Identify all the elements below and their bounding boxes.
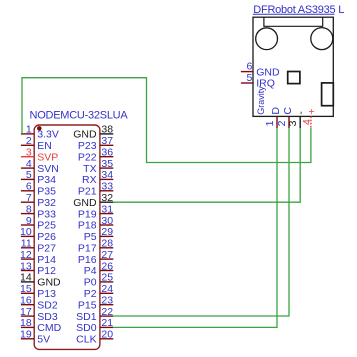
svg-text:16: 16 [20, 295, 32, 307]
U1 pin 8 (P33) left [21, 203, 56, 220]
svg-text:36: 36 [101, 147, 113, 159]
U1 pin 33 (P21) right [78, 181, 113, 198]
svg-text:15: 15 [20, 283, 32, 295]
U1 pin 12 (P14) left [20, 249, 56, 266]
svg-text:2: 2 [26, 135, 32, 147]
U1 pin 4 (SVN) left [21, 158, 59, 175]
svg-text:14: 14 [20, 272, 32, 284]
svg-text:SD0: SD0 [76, 322, 97, 334]
svg-text:IRQ: IRQ [256, 78, 275, 90]
U1 pin 5 (P34) left [21, 169, 56, 186]
U1 pin 6 (P35) left [21, 181, 56, 198]
svg-text:2: 2 [276, 120, 288, 126]
svg-text:3: 3 [26, 147, 32, 159]
U1 pin 31 (P19) right [78, 203, 113, 220]
svg-text:28: 28 [101, 238, 113, 250]
svg-text:P22: P22 [78, 151, 97, 163]
U2 left mounting hole [256, 28, 278, 50]
U2 pin 6 (GND) [241, 60, 280, 78]
svg-text:SVN: SVN [37, 163, 59, 175]
svg-text:P13: P13 [37, 288, 56, 300]
U1 pin 26 (P4) right [84, 260, 114, 277]
U1 pin 34 (RX) right [82, 169, 113, 186]
svg-text:1: 1 [264, 120, 276, 126]
U1 pin 15 (P13) left [20, 283, 56, 300]
svg-text:P33: P33 [37, 208, 56, 220]
svg-text:18: 18 [20, 317, 32, 329]
svg-text:12: 12 [20, 249, 32, 261]
svg-text:P34: P34 [37, 174, 56, 186]
U1 reference label NODEMCU-32SLUA [30, 109, 129, 121]
U1 pin 32 (GND) right [73, 192, 113, 209]
svg-text:P18: P18 [78, 220, 97, 232]
svg-text:22: 22 [101, 306, 113, 318]
svg-text:P32: P32 [37, 197, 56, 209]
U1 pin 13 (P12) left [20, 260, 56, 277]
svg-text:6: 6 [26, 181, 32, 193]
svg-text:20: 20 [101, 329, 113, 341]
U1 pin 24 (P2) right [84, 283, 114, 300]
svg-text:D: D [270, 107, 282, 115]
svg-text:P27: P27 [37, 242, 56, 254]
svg-text:P0: P0 [84, 277, 97, 289]
svg-text:P2: P2 [84, 288, 97, 300]
svg-text:29: 29 [101, 226, 113, 238]
svg-text:SD2: SD2 [37, 299, 58, 311]
U2 Gravity label (vertical) [256, 86, 266, 115]
svg-text:35: 35 [101, 158, 113, 170]
U1 pin 10 (P26) left [20, 226, 56, 243]
svg-text:P17: P17 [78, 242, 97, 254]
U1 pin 19 (5V) left [20, 329, 50, 346]
svg-text:27: 27 [101, 249, 113, 261]
svg-text:NODEMCU-32SLUA: NODEMCU-32SLUA [30, 109, 129, 121]
svg-text:P16: P16 [78, 254, 97, 266]
module U2 DFRobot AS3935 body [253, 17, 333, 116]
svg-text:11: 11 [21, 238, 32, 250]
svg-text:21: 21 [101, 317, 113, 329]
U1 pin 23 (P15) right [78, 295, 113, 312]
U1 pin 11 (P27) left [21, 238, 56, 255]
svg-text:Gravity: Gravity [256, 86, 266, 115]
U1 pin 9 (P25) left [21, 215, 56, 232]
svg-text:GND: GND [73, 197, 97, 209]
svg-text:3: 3 [287, 120, 299, 126]
svg-text:5V: 5V [37, 334, 50, 346]
svg-text:32: 32 [101, 192, 113, 204]
svg-text:RX: RX [82, 174, 97, 186]
svg-text:CMD: CMD [37, 322, 61, 334]
svg-text:25: 25 [101, 272, 113, 284]
U2 pin 3 (-) bottom [287, 111, 307, 128]
U1 pin 21 (SD0) right [76, 317, 113, 334]
svg-text:13: 13 [20, 260, 32, 272]
svg-text:P23: P23 [78, 140, 97, 152]
svg-text:P14: P14 [37, 254, 56, 266]
wire net GND: U2 pin3 (-) to U1 pin32 (GND) [113, 128, 300, 202]
U1 pin 14 (GND) left [20, 272, 61, 289]
U2 pin 2 (C) bottom [276, 107, 294, 128]
wire net SCL: U2 pin2 (C) to U1 pin22 (SD1) [113, 128, 289, 316]
U1 pin 35 (TX) right [83, 158, 113, 175]
U1 pin 25 (P0) right [84, 272, 114, 289]
svg-text:19: 19 [20, 329, 32, 341]
svg-text:6: 6 [246, 60, 252, 72]
svg-text:P21: P21 [78, 186, 97, 198]
svg-text:5: 5 [246, 72, 252, 84]
svg-text:10: 10 [20, 226, 32, 238]
wire net SDA: U2 pin1 (D) to U1 pin21 (SD0) [113, 128, 277, 327]
U2 top connector tab outline [264, 17, 323, 26]
svg-text:SD1: SD1 [76, 311, 97, 323]
svg-text:+: + [306, 108, 318, 114]
svg-text:GND: GND [256, 66, 280, 78]
U1 pin 1 indicator dot [37, 126, 42, 131]
svg-text:9: 9 [26, 215, 32, 227]
U1 pin 3 (SVP) left [21, 147, 58, 164]
U2 sensor IC square [288, 72, 300, 84]
U1 pin 27 (P16) right [78, 249, 113, 266]
svg-text:P19: P19 [78, 208, 97, 220]
svg-text:EN: EN [37, 140, 52, 152]
svg-text:SD3: SD3 [37, 311, 58, 323]
svg-text:P5: P5 [84, 231, 97, 243]
svg-text:7: 7 [26, 192, 32, 204]
U1 pin 2 (EN) left [21, 135, 52, 152]
svg-text:8: 8 [26, 203, 32, 215]
svg-text:1: 1 [26, 124, 32, 136]
U1 pin 18 (CMD) left [20, 317, 62, 334]
svg-text:4: 4 [301, 119, 313, 125]
svg-text:P12: P12 [37, 265, 56, 277]
svg-text:26: 26 [101, 260, 113, 272]
svg-text:GND: GND [37, 277, 61, 289]
svg-text:P15: P15 [78, 299, 97, 311]
svg-text:P26: P26 [37, 231, 56, 243]
svg-text:C: C [282, 107, 294, 115]
svg-text:33: 33 [101, 181, 113, 193]
svg-text:38: 38 [101, 124, 113, 136]
wire net +3.3V: U2 pin4 (+) to U1 pin1 (3.3V) [22, 78, 311, 163]
U2 pin 5 (IRQ) [241, 72, 275, 90]
U1 pin 1 (3.3V) left [21, 124, 59, 141]
U1 pin 17 (SD3) left [20, 306, 58, 323]
U2 reference label DFRobot AS3935 L [253, 4, 344, 16]
svg-text:30: 30 [101, 215, 113, 227]
U1 pin 22 (SD1) right [76, 306, 113, 323]
svg-text:SVP: SVP [37, 151, 58, 163]
svg-text:31: 31 [101, 203, 113, 215]
svg-text:TX: TX [83, 163, 96, 175]
svg-text:GND: GND [73, 129, 97, 141]
U1 pin 30 (P18) right [78, 215, 113, 232]
svg-text:3.3V: 3.3V [37, 129, 59, 141]
U1 pin 7 (P32) left [21, 192, 56, 209]
svg-text:5: 5 [26, 169, 32, 181]
svg-text:P35: P35 [37, 186, 56, 198]
svg-text:24: 24 [101, 283, 113, 295]
U1 pin 29 (P5) right [84, 226, 114, 243]
svg-text:34: 34 [101, 169, 113, 181]
svg-text:P4: P4 [84, 265, 97, 277]
svg-text:4: 4 [26, 158, 32, 170]
svg-text:P25: P25 [37, 220, 56, 232]
svg-text:23: 23 [101, 295, 113, 307]
U1 pin 38 (GND) right [73, 124, 113, 141]
U1 pin 36 (P22) right [78, 147, 113, 164]
U1 pin 16 (SD2) left [20, 295, 58, 312]
svg-text:CLK: CLK [76, 334, 96, 346]
svg-text:17: 17 [20, 306, 32, 318]
svg-text:37: 37 [101, 135, 113, 147]
U2 right side connector rectangle [322, 83, 334, 106]
U1 pin 37 (P23) right [78, 135, 113, 152]
U1 pin 28 (P17) right [78, 238, 113, 255]
U2 right mounting hole [311, 28, 333, 50]
U2 pin 1 (D) bottom [264, 107, 282, 128]
U2 pin 4 (+) bottom [301, 108, 318, 128]
IC U1 NODEMCU-32SLUA body [34, 125, 100, 349]
U1 pin 20 (CLK) right [76, 329, 113, 346]
